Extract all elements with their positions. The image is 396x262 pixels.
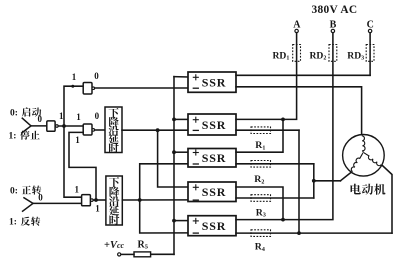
- fuse RD1: [293, 45, 301, 62]
- svg-text:1:: 1:: [9, 132, 17, 142]
- wire G3 out to delay1: [95, 129, 105, 131]
- junction dot on G2 input wire: [71, 85, 74, 88]
- svg-text:B: B: [330, 19, 337, 30]
- SSR U1: [188, 72, 236, 92]
- wire phase B down to SSR5 top: [236, 33, 333, 220]
- wire SSR5 bottom out: [236, 232, 392, 234]
- svg-text:1: 1: [72, 72, 77, 82]
- wire T1 out to SSR2 minus: [122, 129, 188, 131]
- resistor R5: [134, 252, 151, 257]
- terminal A: [295, 29, 298, 32]
- junction dot U bottom: [297, 231, 301, 235]
- wire rail to SSR5 plus: [174, 220, 188, 222]
- junction dot B branch: [281, 218, 285, 222]
- svg-text:SSR: SSR: [202, 151, 226, 165]
- svg-text:SSR: SSR: [202, 185, 226, 199]
- wire rail to SSR1 plus: [174, 76, 188, 78]
- junction dot V: [312, 179, 316, 183]
- wire rail bottom to R5: [151, 253, 174, 255]
- junction dot T1 out: [156, 128, 160, 132]
- motor M circle: [343, 135, 385, 177]
- svg-text:+Vcc: +Vcc: [104, 240, 125, 251]
- label diandongji: [351, 184, 361, 195]
- switch S2 fwd/rev: [24, 198, 82, 204]
- fuse RD2: [329, 45, 337, 62]
- wire SSR3 bottom out: [236, 163, 314, 165]
- wire G3 lower input feedback: [69, 132, 96, 200]
- wire node up to G2 input: [64, 86, 83, 126]
- svg-text:380V AC: 380V AC: [312, 4, 358, 16]
- fuse RD3: [366, 45, 374, 62]
- switch S1 start/stop: [22, 118, 47, 126]
- wire motor right down: [381, 165, 392, 234]
- wire R5 to +Vcc terminal: [121, 253, 134, 255]
- junction dot feedback: [94, 198, 98, 202]
- svg-text:SSR: SSR: [202, 219, 226, 233]
- wire phase C down: [369, 33, 371, 76]
- snubber R4 dashed box: [251, 230, 271, 237]
- wire SSR4 bottom out: [236, 197, 314, 199]
- svg-text:1: 1: [75, 135, 80, 145]
- svg-text:1: 1: [75, 185, 80, 195]
- wire to SSR4 plus: [158, 130, 188, 187]
- wire A-branch to SSR3 top: [236, 119, 283, 152]
- wire U-node vertical: [298, 130, 300, 233]
- wire phase A down to junction: [236, 33, 297, 120]
- wire G2 out to SSR1 minus: [95, 87, 188, 89]
- wire T2 up-branch to SSR3 minus: [140, 164, 188, 200]
- snubber R3 dashed box: [251, 195, 271, 202]
- svg-text:0: 0: [95, 111, 100, 121]
- wire G4 out to delay2: [93, 199, 106, 201]
- svg-text:SSR: SSR: [202, 118, 226, 132]
- svg-text:0: 0: [38, 114, 43, 124]
- terminal +Vcc: [118, 253, 121, 256]
- svg-text:SSR: SSR: [202, 76, 226, 90]
- wire node down to G4 input: [64, 126, 82, 197]
- wire SSR1 bottom out to motor top: [236, 87, 362, 135]
- terminal C: [368, 29, 371, 32]
- terminal B: [331, 29, 334, 32]
- SSR U2: [188, 114, 236, 135]
- snubber R2 dashed box: [251, 161, 271, 168]
- svg-text:A: A: [293, 19, 301, 30]
- gate G3: [83, 124, 92, 135]
- wire B-branch to SSR4 top: [236, 187, 283, 220]
- wire V to motor left: [314, 180, 341, 182]
- junction dot T2 out: [138, 198, 142, 202]
- wire SSR2 bottom out: [236, 129, 299, 131]
- inverter G1: [47, 121, 55, 131]
- wire T2 out to SSR4 minus: [122, 199, 188, 201]
- SSR U4: [188, 182, 236, 202]
- wire V-node vertical: [313, 164, 315, 198]
- wire rail to SSR2 plus: [174, 118, 188, 120]
- wire +Vcc rail: [173, 77, 175, 255]
- wire rail to SSR3 plus: [174, 151, 188, 153]
- SSR U5: [188, 216, 236, 236]
- svg-text:0: 0: [94, 71, 99, 81]
- motor winding left: [351, 153, 363, 171]
- delay block T2 xiajiangyan-yanshi: [106, 176, 122, 225]
- svg-text:0: 0: [38, 193, 43, 203]
- motor winding top: [362, 136, 365, 153]
- delay block T1 xiajiangyan-yanshi: [105, 107, 122, 153]
- svg-text:1:: 1:: [9, 218, 17, 228]
- gate G4: [82, 195, 91, 206]
- svg-text:1: 1: [95, 204, 100, 214]
- snubber R1 dashed box: [251, 127, 271, 134]
- node J1: [62, 124, 66, 128]
- junction dot A: [281, 118, 285, 122]
- svg-text:1: 1: [76, 112, 81, 122]
- svg-text:0:: 0:: [10, 109, 18, 119]
- SSR U3: [188, 149, 236, 168]
- wire G1 out to node: [58, 125, 83, 127]
- gate G2: [83, 83, 92, 95]
- wire T2 down-branch to SSR5 minus: [140, 200, 188, 233]
- svg-text:0:: 0:: [10, 187, 18, 197]
- wire SSR1 top out to C: [236, 74, 370, 76]
- motor winding right: [364, 153, 381, 166]
- svg-text:C: C: [367, 19, 374, 30]
